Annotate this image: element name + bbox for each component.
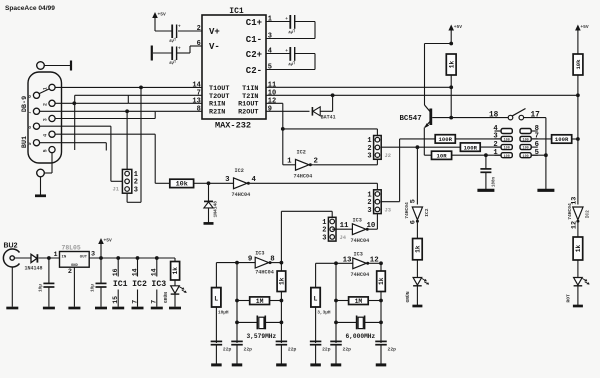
svg-text:22p: 22p — [388, 346, 397, 352]
svg-text:14: 14 — [192, 82, 200, 90]
svg-text:14: 14 — [151, 268, 158, 276]
svg-text:74HC04: 74HC04 — [404, 202, 410, 219]
svg-text:IC3: IC3 — [151, 280, 166, 289]
svg-text:7: 7 — [131, 300, 138, 304]
svg-text:DB-9: DB-9 — [21, 96, 29, 112]
svg-text:15: 15 — [112, 296, 119, 304]
svg-text:12: 12 — [268, 97, 276, 105]
svg-text:L: L — [314, 296, 318, 303]
svg-text:J3: J3 — [385, 208, 391, 214]
svg-text:J1: J1 — [113, 187, 119, 193]
svg-text:IC2: IC2 — [132, 280, 147, 289]
svg-text:3: 3 — [134, 186, 138, 194]
svg-text:100: 100 — [504, 147, 510, 151]
svg-text:16: 16 — [112, 268, 119, 276]
svg-text:7: 7 — [151, 300, 158, 304]
svg-text:+5V: +5V — [580, 24, 589, 30]
svg-text:78L05: 78L05 — [62, 245, 81, 252]
svg-text:1N4148: 1N4148 — [25, 266, 43, 272]
svg-text:8: 8 — [197, 105, 201, 113]
svg-text:1k: 1k — [279, 277, 286, 285]
svg-text:IC2: IC2 — [297, 150, 306, 156]
svg-text:6: 6 — [409, 220, 417, 224]
svg-text:1k: 1k — [415, 245, 422, 253]
svg-text:9: 9 — [248, 256, 252, 264]
svg-text:+: + — [285, 49, 288, 54]
svg-text:22p: 22p — [288, 346, 297, 352]
svg-text:100n: 100n — [493, 176, 497, 187]
svg-text:IC2: IC2 — [424, 208, 430, 217]
svg-text:IC3: IC3 — [255, 251, 264, 257]
svg-text:+: + — [178, 25, 181, 30]
svg-text:IN: IN — [62, 256, 67, 260]
svg-text:10k: 10k — [176, 181, 188, 189]
svg-text:R2OUT: R2OUT — [238, 108, 258, 116]
svg-text:3: 3 — [225, 176, 230, 184]
svg-text:1M: 1M — [355, 298, 363, 305]
svg-text:1: 1 — [268, 16, 272, 24]
svg-text:100: 100 — [523, 155, 529, 159]
svg-text:1: 1 — [493, 149, 498, 157]
svg-text:3: 3 — [322, 234, 326, 242]
svg-text:3: 3 — [268, 33, 272, 41]
svg-text:6: 6 — [535, 141, 539, 149]
svg-text:IC3: IC3 — [354, 251, 363, 257]
svg-text:10µH: 10µH — [218, 310, 229, 315]
svg-text:7: 7 — [535, 133, 539, 141]
svg-text:11: 11 — [268, 82, 276, 90]
svg-text:C1-: C1- — [246, 35, 262, 45]
svg-text:V-: V- — [209, 42, 220, 52]
svg-text:2: 2 — [314, 157, 318, 165]
svg-text:IC1: IC1 — [229, 7, 244, 16]
svg-text:3,3µH: 3,3µH — [317, 310, 331, 315]
svg-text:1k: 1k — [448, 61, 455, 69]
svg-text:C1+: C1+ — [246, 18, 262, 28]
svg-text:8: 8 — [535, 125, 539, 133]
svg-text:100R: 100R — [439, 136, 453, 143]
svg-text:6: 6 — [197, 40, 201, 48]
svg-text:100R: 100R — [555, 136, 569, 143]
svg-text:1k: 1k — [575, 245, 582, 253]
svg-text:L: L — [214, 296, 218, 303]
svg-text:1: 1 — [287, 157, 292, 165]
svg-text:5: 5 — [268, 64, 272, 72]
svg-text:C2-: C2- — [246, 66, 262, 76]
svg-text:3: 3 — [91, 251, 95, 259]
svg-text:7: 7 — [197, 89, 201, 97]
svg-text:74HC04: 74HC04 — [255, 269, 274, 275]
svg-text:R2IN: R2IN — [209, 108, 225, 116]
svg-text:100: 100 — [523, 139, 529, 143]
svg-text:74HC04: 74HC04 — [567, 203, 573, 220]
svg-text:9: 9 — [268, 105, 272, 113]
svg-text:+5V: +5V — [454, 24, 463, 30]
svg-text:5: 5 — [535, 149, 539, 157]
svg-text:74HC04: 74HC04 — [232, 192, 251, 198]
svg-text:IC3: IC3 — [353, 218, 362, 224]
svg-text:22p: 22p — [343, 346, 352, 352]
svg-text:J4: J4 — [340, 235, 347, 241]
svg-text:GRÜN: GRÜN — [404, 291, 411, 302]
svg-text:22p: 22p — [322, 346, 331, 352]
svg-text:2: 2 — [68, 268, 72, 276]
svg-text:3: 3 — [493, 133, 497, 141]
svg-text:BC547: BC547 — [400, 115, 422, 123]
svg-text:5: 5 — [409, 199, 417, 203]
svg-text:14: 14 — [131, 268, 138, 276]
svg-text:1M: 1M — [256, 298, 264, 305]
svg-text:1k: 1k — [378, 277, 385, 285]
svg-text:BAT41: BAT41 — [321, 115, 336, 121]
svg-text:3: 3 — [367, 153, 371, 161]
svg-text:13: 13 — [343, 256, 352, 264]
svg-text:1: 1 — [54, 251, 58, 259]
svg-text:SpaceAce 04/99: SpaceAce 04/99 — [5, 5, 55, 12]
svg-text:2: 2 — [43, 103, 49, 106]
svg-text:MAX-232: MAX-232 — [215, 121, 251, 131]
svg-text:2: 2 — [197, 25, 201, 33]
svg-text:10µ: 10µ — [39, 284, 44, 292]
svg-text:C2+: C2+ — [246, 50, 262, 60]
svg-text:10k: 10k — [575, 59, 582, 70]
svg-text:4: 4 — [43, 134, 49, 137]
svg-text:22p: 22p — [223, 346, 232, 352]
svg-text:V+: V+ — [209, 27, 220, 37]
svg-text:OUT: OUT — [80, 256, 88, 260]
svg-text:10R: 10R — [437, 153, 448, 160]
svg-text:100R: 100R — [464, 144, 478, 151]
svg-text:ROT: ROT — [566, 294, 572, 303]
svg-text:1N4148: 1N4148 — [213, 201, 219, 218]
svg-text:100: 100 — [523, 147, 529, 151]
svg-text:GRÜN: GRÜN — [162, 292, 169, 303]
svg-text:BU1: BU1 — [21, 136, 29, 148]
svg-text:74HC04: 74HC04 — [351, 238, 370, 244]
svg-text:10: 10 — [268, 89, 276, 97]
svg-text:4: 4 — [268, 48, 272, 56]
svg-text:IC1: IC1 — [113, 280, 128, 289]
svg-text:+5V: +5V — [104, 238, 113, 244]
svg-text:+5V: +5V — [158, 12, 167, 18]
svg-text:8: 8 — [27, 126, 33, 129]
svg-text:74HC04: 74HC04 — [351, 272, 370, 278]
svg-text:3: 3 — [367, 207, 371, 215]
svg-text:IC2: IC2 — [235, 168, 244, 174]
svg-text:1k: 1k — [172, 267, 179, 275]
svg-text:11: 11 — [340, 222, 349, 230]
svg-text:10µ: 10µ — [91, 284, 96, 292]
svg-text:2: 2 — [493, 141, 497, 149]
svg-text:IC2: IC2 — [584, 210, 590, 219]
svg-text:74HC04: 74HC04 — [294, 174, 313, 180]
svg-text:22p: 22p — [244, 346, 253, 352]
svg-text:13: 13 — [192, 97, 200, 105]
svg-text:100: 100 — [504, 139, 510, 143]
svg-text:5: 5 — [43, 149, 49, 152]
svg-text:6,000MHz: 6,000MHz — [346, 333, 376, 340]
svg-text:J2: J2 — [385, 153, 391, 159]
svg-text:3,579MHz: 3,579MHz — [247, 333, 277, 340]
svg-text:+: + — [178, 47, 181, 52]
svg-text:4: 4 — [493, 125, 498, 133]
svg-text:100: 100 — [504, 155, 510, 159]
svg-text:18: 18 — [489, 111, 499, 119]
svg-text:+: + — [285, 17, 288, 22]
svg-text:3: 3 — [43, 118, 49, 121]
